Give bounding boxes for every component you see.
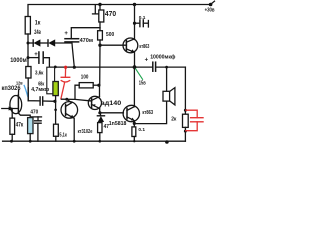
svg-text:100: 100 [81, 75, 89, 81]
speaker BA1 [163, 91, 170, 101]
wire diodes to C3 bottom lead [55, 42, 71, 44]
node red tap [64, 66, 67, 69]
wire speaker feed [166, 67, 168, 91]
wire Q3 emitter down [99, 108, 101, 113]
wire source [18, 113, 30, 118]
resistor R3 68k original body [47, 67, 55, 94]
svg-text:3,6к: 3,6к [35, 71, 44, 77]
wire Q2 emitter to output node [134, 52, 136, 67]
resistor R4 470 [99, 10, 104, 22]
wire R2 bottom to drain node [27, 78, 29, 101]
svg-text:5,1к: 5,1к [59, 133, 67, 139]
svg-text:2к: 2к [171, 116, 176, 122]
wire top +30v rail [28, 5, 211, 17]
node 0.1 cap tap [133, 22, 136, 25]
wire diode chain [28, 42, 33, 44]
resistor R11 47k [10, 118, 15, 134]
wire C1 right lead to output line [43, 58, 49, 67]
wire R5 to base node [99, 40, 101, 45]
capacitor C5 10000mkf [152, 62, 154, 71]
node diode junction [27, 42, 30, 45]
wire Q4 collector from output node [133, 67, 135, 107]
wire R9 to rail [133, 137, 135, 142]
svg-text:470м: 470м [80, 38, 93, 44]
svg-text:0.1: 0.1 [138, 127, 145, 133]
diode VD3 1n5818 [100, 113, 102, 116]
svg-text:1к: 1к [35, 20, 41, 26]
svg-text:15в: 15в [139, 81, 146, 87]
wire T stub on rail [94, 5, 96, 14]
capacitor C2 470m top lead [71, 28, 100, 39]
wire 2k branch [184, 67, 186, 114]
svg-text:470: 470 [105, 11, 116, 18]
wire drain node to 4.7 cap [28, 88, 40, 101]
wire R11 to rail [11, 134, 13, 141]
wire base node to Q2 base [100, 44, 126, 46]
svg-text:1n5818: 1n5818 [109, 121, 127, 127]
resistor R10 2k [183, 114, 189, 127]
node C1 junction [27, 56, 30, 59]
wire R6 right lead [93, 84, 99, 86]
node 2k top red tap [184, 109, 187, 112]
resistor R7 5.1k [54, 124, 59, 136]
svg-text:12в: 12в [16, 80, 23, 86]
svg-text:+30в: +30в [205, 8, 215, 14]
transistor Q3 ad140 [88, 96, 101, 109]
wire R8 to rail [99, 133, 101, 142]
wire rail to R4 [99, 5, 101, 11]
node +30v terminal [209, 3, 213, 7]
resistor R12 source blue [28, 118, 33, 134]
wire source node line [30, 116, 41, 118]
wire C2 bottom lead [72, 42, 74, 67]
wire 68k bottom to base tap [55, 96, 57, 125]
resistor R9 0.1 [132, 127, 136, 137]
node C2 tap [73, 66, 76, 69]
svg-text:1000м: 1000м [10, 58, 27, 64]
svg-text:10000мкф: 10000мкф [150, 54, 175, 61]
svg-text:47: 47 [104, 124, 109, 130]
wire Q4 emitter [133, 121, 135, 127]
annotation 15v green [136, 69, 143, 80]
node 68k tap [54, 66, 57, 69]
svg-text:0.1: 0.1 [139, 15, 146, 21]
node driver base [98, 44, 101, 47]
resistor R8 47 [98, 123, 102, 133]
capacitor C2 470m plates [65, 38, 79, 40]
svg-text:ад140: ад140 [101, 100, 122, 107]
node rail junctions [10, 140, 169, 144]
wire output line right segment [156, 66, 186, 68]
transistor Q1 kt3102e [61, 102, 78, 119]
svg-text:+: + [145, 57, 149, 63]
diode VD2 [47, 40, 49, 46]
wire Q1 emitter to rail [73, 118, 75, 141]
diode VD1 [32, 40, 34, 46]
node output [133, 65, 137, 69]
node speaker tap [165, 66, 168, 69]
node emitter speaker junction [133, 122, 136, 125]
svg-text:+: + [64, 31, 68, 37]
transistor Q2 kt863 top [123, 38, 138, 53]
wire R7 to rail [55, 136, 57, 141]
node Q1 collector [65, 98, 68, 101]
node 2k bottom red tap [184, 130, 187, 133]
wire R4 to R5 [99, 22, 101, 31]
wire R12 to rail [29, 134, 31, 142]
wire left branch R1 to diode node [27, 34, 29, 67]
node collector 100 [97, 84, 100, 87]
node base tap junction [54, 109, 57, 112]
capacitor C4 0.1 [135, 22, 140, 24]
svg-text:кт863: кт863 [142, 110, 153, 116]
capacitor C1 1000m left lead [28, 57, 39, 59]
wire output line left segment [49, 66, 152, 68]
svg-text:кт863: кт863 [139, 44, 149, 50]
resistor R5 500 [98, 31, 103, 40]
svg-text:47к: 47к [16, 123, 24, 129]
transistor Q5 kp302 jfet [10, 96, 22, 114]
wire R6 left lead [75, 85, 79, 99]
wire R10 bottom to rail [184, 127, 186, 141]
wire node to Q4 base [100, 112, 124, 114]
svg-text:+: + [34, 52, 38, 58]
wire Q3 collector to node [99, 85, 101, 96]
capacitor C8 470 source bypass [37, 117, 39, 121]
resistor R6 100 [79, 83, 93, 88]
wire bus down to collector node [99, 45, 101, 85]
wire speaker return [134, 101, 166, 123]
svg-text:24в: 24в [34, 30, 41, 36]
svg-text:кт3102е: кт3102е [78, 129, 93, 135]
capacitor C1 1000m plates [38, 52, 40, 63]
node rail collector junction [133, 3, 136, 6]
wire 47k gate stub [11, 109, 13, 119]
wire node line collector-base [61, 99, 91, 101]
svg-text:470: 470 [30, 110, 38, 116]
resistor R2 3.6k [26, 67, 31, 79]
node 4.7mkf junction [53, 100, 56, 103]
svg-text:4,7мкф: 4,7мкф [31, 86, 49, 93]
capacitor C6 red mod across 2k [186, 110, 203, 131]
svg-text:500: 500 [106, 32, 114, 38]
capacitor C3 red mod top [61, 68, 70, 99]
resistor R3 68k green mod [53, 82, 58, 96]
wire gate input [2, 108, 19, 110]
wire between diodes [40, 42, 48, 44]
transistor Q4 kt863 bottom [123, 105, 139, 121]
resistor R1 1k [25, 17, 30, 35]
wire Q2 collector [134, 5, 136, 40]
node diode node [98, 111, 101, 114]
capacitor C7 4.7mkf [39, 97, 41, 105]
wire bottom rail [3, 140, 186, 142]
wire drain jog [17, 90, 19, 95]
node rail bus junction [98, 3, 101, 6]
